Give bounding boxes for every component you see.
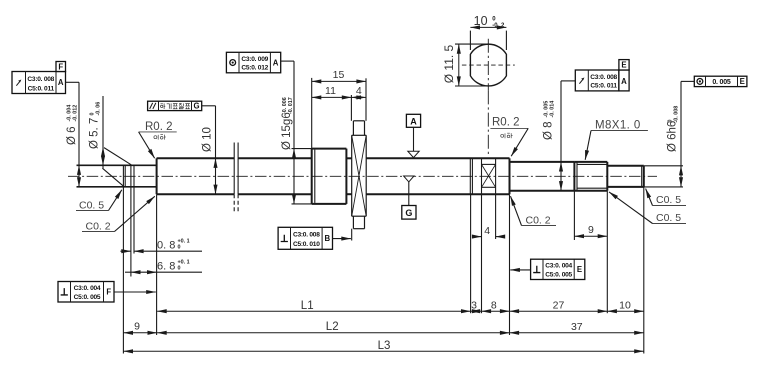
svg-text:10: 10 bbox=[619, 300, 631, 312]
FCF perpendicularity C3:0.004 C5:0.005 F (left face) bbox=[58, 282, 114, 303]
label C0.5 M8 chamfer bbox=[609, 192, 686, 224]
svg-text:37: 37 bbox=[571, 321, 583, 333]
leader FCF to Ø6h6 dim bbox=[681, 80, 694, 82]
svg-text:-0. 014: -0. 014 bbox=[550, 101, 556, 118]
dimension 9 (M8 length) bbox=[574, 191, 607, 314]
dimension 37 bbox=[510, 321, 644, 333]
svg-text:6. 8: 6. 8 bbox=[157, 260, 175, 272]
svg-text:G: G bbox=[194, 102, 200, 111]
dimension Ø6h6 0/-0.008 bbox=[644, 81, 683, 186]
extension lines bottom bbox=[123, 187, 643, 354]
shaft Ø8 section outline bbox=[510, 162, 575, 191]
datum cells A and E bbox=[619, 60, 629, 91]
svg-text:F: F bbox=[106, 287, 111, 296]
datum flag G on root/axis bbox=[402, 176, 416, 219]
dimension 4 (right groove) bbox=[475, 194, 502, 313]
svg-text:R0. 2: R0. 2 bbox=[492, 117, 520, 129]
dimension Ø8 with tolerance bbox=[543, 81, 562, 191]
section view circle Ø11.5 with flats bbox=[470, 44, 506, 86]
label C0.2 right step chamfer bbox=[511, 196, 557, 226]
svg-text:B: B bbox=[324, 234, 330, 243]
svg-text:0: 0 bbox=[178, 266, 181, 272]
leader to Ø15g6 dimension bbox=[281, 60, 294, 62]
svg-text:8: 8 bbox=[491, 300, 497, 312]
svg-text:C5:0. 012: C5:0. 012 bbox=[241, 65, 268, 72]
svg-text:R0. 2: R0. 2 bbox=[145, 121, 173, 133]
leader to step ext line bbox=[510, 269, 530, 271]
dimension 3 bbox=[471, 300, 482, 312]
dimension 9 (groove to shoulder) bbox=[123, 320, 157, 333]
svg-text:11: 11 bbox=[325, 85, 336, 97]
svg-text:L3: L3 bbox=[378, 340, 391, 352]
svg-text:Ø 8: Ø 8 bbox=[543, 121, 555, 140]
svg-text:C3:0. 004: C3:0. 004 bbox=[545, 263, 572, 270]
circlip groove lines on Ø6 journal bbox=[123, 165, 134, 187]
svg-text:0. 8: 0. 8 bbox=[157, 239, 175, 251]
dimension 4 (washer) bbox=[351, 85, 366, 97]
FCF concentricity 0.005 E (end) bbox=[694, 76, 747, 86]
dimension L2 bbox=[157, 321, 509, 333]
FCF perpendicularity C3:0.004 C5:0.005 E (step face) bbox=[531, 259, 585, 279]
dimension Ø5.7 0/-0.06 (groove) bbox=[89, 96, 133, 187]
dimension 10 (width across flats) bbox=[470, 14, 506, 50]
label C0.5 left chamfer bbox=[76, 190, 122, 212]
FCF concentricity C3:0.009 C5:0.012 A (Ø15g6) bbox=[226, 52, 280, 73]
svg-text:3: 3 bbox=[471, 300, 477, 312]
svg-text:C5:0. 011: C5:0. 011 bbox=[28, 85, 55, 92]
washer disc with cross marking bbox=[352, 121, 367, 229]
svg-text:F: F bbox=[58, 63, 63, 72]
dimension Ø15g6 bbox=[281, 61, 312, 204]
svg-text:4: 4 bbox=[484, 225, 490, 237]
svg-text:-0. 008: -0. 008 bbox=[674, 106, 680, 123]
svg-text:Ø 6h6: Ø 6h6 bbox=[667, 121, 679, 152]
svg-text:0. 005: 0. 005 bbox=[712, 79, 731, 86]
dimension 6.8 +0.1/0 groove position bbox=[125, 260, 202, 273]
datum flag A on thread bbox=[406, 114, 420, 157]
svg-text:M8X1. 0: M8X1. 0 bbox=[595, 119, 641, 131]
svg-text:E: E bbox=[621, 61, 626, 70]
svg-text:9: 9 bbox=[134, 320, 140, 332]
dimension 27 bbox=[510, 300, 608, 312]
svg-text:C0. 5: C0. 5 bbox=[656, 212, 681, 224]
section location dash-dot line bbox=[487, 90, 489, 156]
svg-text:10: 10 bbox=[474, 14, 488, 28]
svg-text:L1: L1 bbox=[301, 300, 314, 312]
label R0.2 (이하) right fillet bbox=[490, 117, 528, 157]
Ø6h6 end section outline bbox=[607, 166, 644, 187]
svg-text:-0. 012: -0. 012 bbox=[73, 105, 79, 122]
svg-text:Ø 11. 5: Ø 11. 5 bbox=[442, 44, 456, 83]
leader FCF to Ø6 dimension bbox=[66, 81, 80, 83]
surface finish note box bbox=[148, 101, 202, 110]
shaft Ø6 left journal outline bbox=[77, 165, 157, 187]
svg-text:Ø 5. 7: Ø 5. 7 bbox=[89, 118, 101, 149]
svg-text:Ø 10: Ø 10 bbox=[202, 127, 214, 152]
leader FCF to Ø8 dim bbox=[561, 80, 575, 82]
svg-text:C3:0. 009: C3:0. 009 bbox=[241, 56, 268, 63]
label R0.2 (이하) left fillet bbox=[139, 121, 177, 158]
M8 thread section outline bbox=[574, 162, 607, 191]
svg-text:C0. 5: C0. 5 bbox=[656, 194, 681, 206]
leader to left shoulder ext line bbox=[114, 291, 156, 293]
dimension 10 bbox=[607, 300, 644, 312]
dimension 11 bbox=[312, 85, 352, 121]
svg-text:L2: L2 bbox=[326, 321, 339, 333]
dimension Ø6 with tolerance bbox=[66, 82, 79, 187]
svg-text:Ø 15g6: Ø 15g6 bbox=[281, 112, 293, 150]
svg-text:C3:0. 004: C3:0. 004 bbox=[74, 285, 101, 292]
shaft centerline bbox=[68, 175, 657, 177]
svg-text:C5:0. 010: C5:0. 010 bbox=[293, 241, 320, 248]
svg-text:C3:0. 008: C3:0. 008 bbox=[590, 74, 617, 81]
svg-text:A: A bbox=[410, 117, 417, 127]
svg-text:C0. 5: C0. 5 bbox=[79, 199, 104, 211]
svg-text:Ø 6: Ø 6 bbox=[66, 126, 78, 145]
svg-text:27: 27 bbox=[553, 300, 565, 312]
connector to Ø10 dimension bbox=[202, 105, 216, 107]
label C0.5 end chamfer bbox=[646, 189, 686, 206]
svg-text:A: A bbox=[58, 78, 64, 87]
thread end lines bbox=[470, 158, 472, 194]
svg-text:15: 15 bbox=[333, 69, 345, 81]
svg-text:G: G bbox=[405, 208, 412, 218]
svg-text:C0. 2: C0. 2 bbox=[86, 220, 111, 232]
shaft Ø10 right section outline bbox=[366, 158, 509, 194]
leader to washer face bbox=[333, 229, 352, 241]
svg-text:E: E bbox=[577, 265, 582, 274]
dimension L1 bbox=[157, 300, 471, 312]
svg-text:-0. 06: -0. 06 bbox=[96, 102, 102, 116]
svg-text:9: 9 bbox=[588, 224, 594, 236]
svg-text:A: A bbox=[273, 58, 279, 67]
FCF runout C3:0.008 C5:0.011 A/E (Ø8) bbox=[575, 70, 619, 91]
dimension Ø10 bbox=[202, 106, 216, 194]
dimension 15 bbox=[312, 69, 366, 148]
FCF perpendicularity C3:0.008 C5:0.010 B (washer face) bbox=[278, 227, 332, 249]
label C0.2 left shoulder chamfer bbox=[82, 196, 155, 232]
svg-text:C5:0. 005: C5:0. 005 bbox=[74, 294, 101, 301]
dimension 0.8 +0.1/0 groove width bbox=[120, 187, 202, 277]
svg-text:C0. 2: C0. 2 bbox=[526, 214, 551, 226]
svg-text:C5:0. 005: C5:0. 005 bbox=[545, 271, 572, 278]
svg-text:E: E bbox=[740, 77, 745, 86]
Ø15g6 journal outline bbox=[312, 149, 352, 204]
label M8×1.0 bbox=[585, 119, 648, 159]
FCF runout C3:0.008 C5:0.011 A (left journal) bbox=[12, 72, 66, 94]
dimension L3 bbox=[123, 340, 643, 352]
svg-text:C3:0. 008: C3:0. 008 bbox=[27, 76, 54, 83]
dimension Ø11.5 bbox=[442, 44, 487, 86]
svg-text:-0. 017: -0. 017 bbox=[288, 97, 294, 114]
svg-text:C3:0. 008: C3:0. 008 bbox=[293, 232, 320, 239]
svg-text:A: A bbox=[621, 77, 627, 86]
dimension 8 bbox=[482, 300, 510, 312]
svg-text:C5:0. 011: C5:0. 011 bbox=[590, 83, 617, 90]
section view centerlines bbox=[462, 39, 515, 91]
svg-text:-0. 2: -0. 2 bbox=[492, 23, 505, 29]
circlip groove with cross (flats) bbox=[482, 158, 496, 194]
svg-text:0: 0 bbox=[178, 245, 181, 251]
svg-text:4: 4 bbox=[356, 85, 362, 97]
break (shortening) double line bbox=[234, 143, 238, 214]
datum box F above bbox=[56, 62, 66, 72]
shaft Ø10 thread section outline bbox=[157, 158, 312, 194]
